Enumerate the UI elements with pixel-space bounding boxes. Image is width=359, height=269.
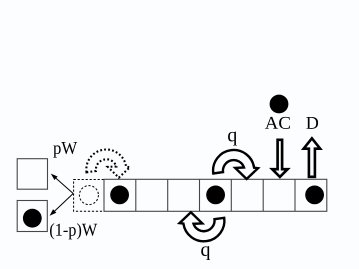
label pW <box>53 142 77 158</box>
particle cell 1 <box>110 186 129 205</box>
particle in bottom-left box <box>23 209 42 228</box>
dashed particle (virtual) <box>79 186 98 205</box>
label q (top) <box>228 132 237 146</box>
label AC <box>265 117 290 129</box>
wire arrow to top box (pW) <box>51 174 73 194</box>
wire arrow to bottom box ((1-p)W) <box>50 194 74 216</box>
free particle above AC <box>270 95 289 114</box>
particle cell 7 <box>305 186 324 205</box>
backward hop arrow q <box>180 212 225 241</box>
label D <box>306 117 318 129</box>
dashed entry cell <box>74 180 104 212</box>
reservoir box bottom-left <box>17 201 47 232</box>
particle cell 4 <box>206 186 225 205</box>
lattice cell lines <box>136 179 295 211</box>
reservoir box top-left (empty) <box>17 159 47 190</box>
forward hop arrow q <box>213 150 258 179</box>
dotted hop arrow (entry) <box>86 150 130 178</box>
detachment arrow D (up, hollow) <box>304 138 321 177</box>
lattice outer rect <box>104 179 327 211</box>
attachment arrow AC (down, hollow) <box>272 140 287 177</box>
label (1-p)W <box>50 223 97 239</box>
label q (bottom) <box>201 246 210 260</box>
